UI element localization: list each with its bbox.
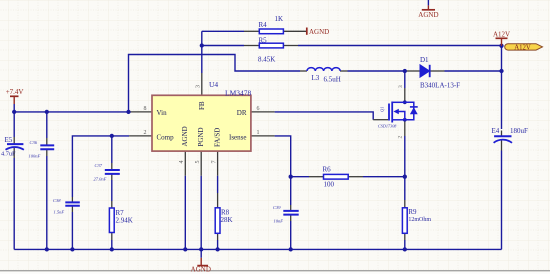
- svg-text:B340LA-13-F: B340LA-13-F: [420, 82, 460, 90]
- resistor R6: [323, 166, 349, 189]
- pin stub Q1 source: [404, 120, 406, 136]
- junction C36 on Vin rail: [45, 110, 49, 114]
- wire AGND stub top: [427, 0, 429, 5]
- pin stub R8 top: [217, 193, 219, 208]
- svg-text:4.7uF: 4.7uF: [1, 151, 16, 158]
- svg-text:R4: R4: [259, 21, 268, 29]
- wire ground rail: [14, 248, 501, 250]
- junction switch node D1/Q1: [403, 69, 407, 73]
- svg-text:1: 1: [257, 130, 260, 136]
- pin stub U4 Isense pin 1: [251, 135, 275, 137]
- capacitor C36 100nF: [29, 140, 55, 159]
- svg-text:12mOhm: 12mOhm: [408, 217, 431, 223]
- svg-text:CSD17308: CSD17308: [378, 124, 397, 129]
- pin stub U4 FB pin 3: [201, 73, 203, 95]
- svg-text:DR: DR: [237, 109, 247, 117]
- svg-text:2.94K: 2.94K: [116, 217, 133, 225]
- wire DR to gate: [275, 112, 374, 120]
- junction rail C38: [70, 247, 74, 251]
- svg-text:Isense: Isense: [229, 133, 247, 141]
- wire L3 feed (rail to inductor): [129, 55, 301, 112]
- capacitor C38 1.5nF: [53, 198, 80, 215]
- wire Isense from pin: [275, 136, 291, 205]
- junction R5/R4 left: [200, 43, 204, 47]
- ground AGND (bottom center): [191, 249, 211, 273]
- svg-text:C39: C39: [273, 205, 281, 210]
- wire R9 top: [404, 177, 406, 200]
- svg-text:100: 100: [324, 181, 335, 189]
- wire C37 branch top: [111, 136, 113, 163]
- pin stub D1 anode: [405, 70, 420, 72]
- pin stub R4 left: [244, 30, 259, 32]
- capacitor C37 27.0nF: [94, 163, 120, 182]
- svg-text:C38: C38: [53, 198, 61, 203]
- junction +7.4V / E5: [12, 110, 16, 114]
- svg-text:U4: U4: [209, 80, 218, 89]
- junction rail R9: [403, 247, 407, 251]
- wire D1 cathode to output node: [445, 70, 502, 72]
- pin stub L3 right: [340, 70, 348, 72]
- pin stub R7 bottom: [111, 233, 113, 241]
- pin stub U4 pin 4: [184, 151, 186, 176]
- svg-text:D1: D1: [420, 56, 429, 64]
- svg-text:FB: FB: [198, 101, 206, 110]
- junction L3 feed on Vin rail: [126, 110, 130, 114]
- pin stub L3 left: [300, 70, 307, 72]
- junction rail R7: [110, 247, 114, 251]
- wire R6 left: [291, 176, 309, 178]
- pin stub U4 Vin pin 8: [130, 111, 152, 113]
- pin stub R5 left: [244, 45, 259, 47]
- svg-text:2: 2: [144, 130, 147, 136]
- pin stub U4 Comp pin 2: [129, 135, 152, 137]
- power A12V (top right): [493, 31, 510, 46]
- pin stub U4 DR pin 6: [251, 111, 275, 113]
- svg-text:E4: E4: [492, 127, 500, 135]
- wire +7.4V stem to Vin rail: [13, 104, 15, 112]
- pin stub E5 bottom: [13, 148, 15, 159]
- svg-text:6.5uH: 6.5uH: [324, 76, 341, 84]
- wire R5 right to A12V node: [298, 45, 502, 47]
- resistor R4: [259, 15, 284, 34]
- wire E5 branch: [13, 112, 15, 137]
- wire Q1 source down: [404, 136, 406, 177]
- pin stub E4 bottom: [501, 141, 503, 151]
- inductor L3: [307, 68, 341, 84]
- junction rail C36: [45, 247, 49, 251]
- junction D1 output on vertical: [499, 69, 503, 73]
- pin stub R6 left: [309, 176, 324, 178]
- junction R6 left / Isense: [289, 175, 293, 179]
- svg-text:1K: 1K: [275, 15, 284, 23]
- pin stub R9 top: [404, 200, 406, 208]
- capacitor E4 180uF (polarized): [492, 127, 529, 143]
- svg-text:5: 5: [195, 161, 201, 164]
- svg-text:AGND: AGND: [181, 126, 189, 146]
- resistor R5: [258, 37, 283, 64]
- svg-text:100nF: 100nF: [29, 154, 41, 159]
- svg-text:8: 8: [144, 106, 147, 112]
- pin stub R9 bottom: [404, 233, 406, 240]
- wire FB vertical: [201, 46, 203, 74]
- svg-text:A12V: A12V: [514, 45, 531, 52]
- svg-text:C36: C36: [30, 140, 38, 145]
- wire R6 right: [363, 176, 405, 178]
- pin stub R4 right: [283, 30, 306, 32]
- pin stub C38 top: [71, 197, 73, 202]
- svg-text:8.45K: 8.45K: [258, 56, 275, 64]
- pin stub C39 top: [290, 205, 292, 210]
- pin stub U4 pin 7: [217, 151, 219, 176]
- svg-text:R5: R5: [259, 37, 268, 45]
- svg-text:C37: C37: [95, 163, 103, 168]
- junction rail R8: [215, 247, 219, 251]
- pin stub C39 bottom: [290, 215, 292, 221]
- op-amp U4 LM3478 body: [152, 80, 252, 151]
- ground AGND (top center): [418, 5, 438, 18]
- capacitor E5 4.7uF (polarized): [1, 136, 24, 158]
- junction A12V output: [499, 44, 503, 48]
- junction rail pin5/AGND: [199, 247, 203, 251]
- wire R5 left: [202, 45, 244, 47]
- pin stub Q1 gate: [373, 119, 388, 121]
- wire Q1 drain up to switch node: [404, 71, 406, 88]
- pin stub U4 pin 5: [200, 151, 202, 176]
- power +7.4V: [6, 88, 24, 104]
- junction rail pin4: [183, 247, 187, 251]
- wire R4-R5 vertical: [201, 31, 203, 45]
- svg-text:4: 4: [179, 161, 185, 164]
- pin stub C36 top: [46, 138, 48, 145]
- svg-text:3: 3: [196, 85, 202, 88]
- diode D1 B340LA-13-F: [420, 56, 460, 90]
- pin stub C36 bottom: [46, 150, 48, 157]
- svg-text:180uF: 180uF: [510, 127, 528, 135]
- svg-text:3: 3: [398, 85, 404, 88]
- wire IC pin7 to R8: [217, 176, 219, 193]
- pin stub R7 top: [111, 201, 113, 208]
- svg-text:E5: E5: [5, 136, 13, 144]
- svg-text:L3: L3: [312, 74, 320, 82]
- svg-text:LM3478: LM3478: [225, 89, 252, 98]
- svg-text:6: 6: [257, 106, 260, 112]
- svg-text:2: 2: [398, 136, 404, 139]
- svg-text:1.5nF: 1.5nF: [54, 210, 65, 215]
- pin stub C38 bottom: [71, 206, 73, 212]
- wire R4 left: [202, 30, 244, 32]
- svg-text:AGND: AGND: [418, 11, 438, 19]
- svg-text:Q1: Q1: [380, 107, 385, 113]
- junction R6 right / R9: [403, 175, 407, 179]
- pin stub C37 bottom: [111, 174, 113, 180]
- wire Comp net: [72, 136, 129, 197]
- junction C37 on Comp wire: [110, 134, 114, 138]
- transistor Q1 CSD17308: [378, 102, 418, 129]
- ground AGND (right of R4): [307, 28, 329, 37]
- pin stub R5 right: [283, 45, 298, 47]
- svg-text:PGND: PGND: [197, 127, 205, 146]
- svg-text:R6: R6: [323, 166, 332, 174]
- pin stub Q1 drain: [404, 88, 406, 102]
- svg-text:AGND: AGND: [309, 28, 329, 36]
- pin stub R8 bottom: [217, 233, 219, 240]
- wire E4 bottom to rail: [501, 151, 503, 250]
- wire R8 bottom to rail: [217, 240, 219, 249]
- resistor R7: [109, 208, 132, 233]
- wire R7 bottom to rail: [111, 240, 113, 249]
- svg-text:7: 7: [212, 161, 218, 164]
- pin stub E5 top: [13, 137, 15, 144]
- wire Vin rail: [14, 111, 130, 113]
- svg-text:A12V: A12V: [493, 31, 510, 39]
- wire C39 to rail: [290, 221, 292, 249]
- wire R9 bottom: [404, 240, 406, 249]
- junction Q1 drain / body diode: [403, 100, 407, 104]
- wire IC pin5 to rail: [200, 176, 202, 250]
- wire IC pin4 to rail: [184, 176, 186, 250]
- pin stub R6 right: [348, 176, 363, 178]
- svg-text:FA/SD: FA/SD: [214, 128, 222, 147]
- junction rail C39: [289, 247, 293, 251]
- wire C38 bottom to rail: [71, 212, 73, 249]
- svg-text:Vin: Vin: [157, 109, 168, 117]
- resistor R8: [215, 208, 232, 234]
- port A12V (sheet entry): [505, 44, 543, 52]
- resistor R9: [402, 208, 431, 234]
- pin stub D1 cathode: [430, 70, 445, 72]
- svg-text:28K: 28K: [221, 216, 233, 224]
- svg-text:10nF: 10nF: [274, 219, 284, 224]
- svg-text:AGND: AGND: [191, 265, 211, 273]
- wire C36 branch: [46, 112, 48, 138]
- capacitor C39 10nF: [273, 205, 299, 224]
- wire L3 to D1 anode: [348, 70, 406, 72]
- pin stub E4 top: [501, 131, 503, 136]
- pin stub C37 top: [111, 163, 113, 170]
- svg-text:R9: R9: [408, 208, 417, 216]
- junction Q1 source / body diode: [403, 118, 407, 122]
- wire output vertical A12V to E4: [501, 46, 503, 129]
- svg-text:27.0nF: 27.0nF: [94, 177, 107, 182]
- svg-text:Comp: Comp: [157, 133, 175, 141]
- wire C37 to R7: [111, 180, 113, 201]
- svg-text:+7.4V: +7.4V: [6, 88, 24, 96]
